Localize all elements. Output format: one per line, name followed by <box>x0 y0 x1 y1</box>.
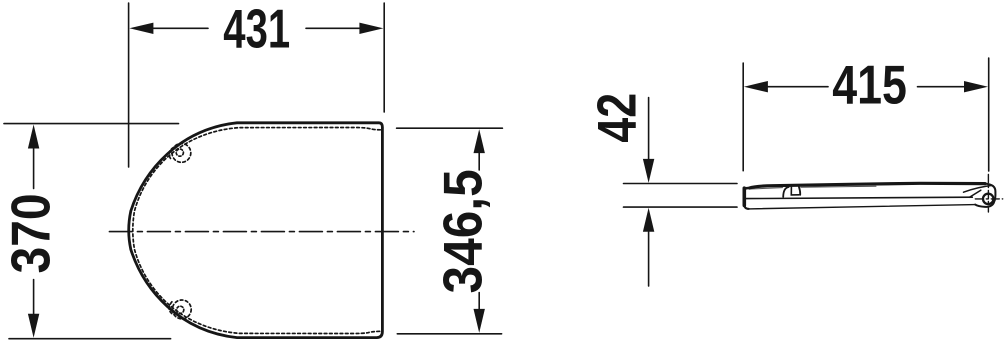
seat outline top view <box>129 123 383 338</box>
dim 370 extension line bottom <box>9 338 171 340</box>
screw hole bottom (dotted teardrop) <box>172 300 191 319</box>
dim 346,5 line bottom segment <box>478 293 480 310</box>
dim 42 arrow up <box>643 208 654 232</box>
side view left bottom corner <box>744 205 749 209</box>
dim 431 line right segment <box>306 27 361 29</box>
screw hole top (dotted teardrop) <box>172 144 191 163</box>
bumper left arc <box>783 187 788 197</box>
dim 346,5 extension line top <box>397 127 503 129</box>
dim 42 extension line bottom <box>624 206 738 208</box>
dim 346,5 line top segment <box>478 153 480 170</box>
side view right hinge end outline <box>975 184 995 207</box>
dim 370 arrow up <box>28 125 39 149</box>
dim 346,5 extension line bottom <box>397 333 501 335</box>
svg-text:415: 415 <box>832 54 907 115</box>
dim 370 line top segment <box>33 148 35 189</box>
side view mid line <box>746 197 972 198</box>
dim 42 stem top <box>648 98 650 160</box>
hinge centerline horizontal <box>975 198 1002 200</box>
dim 42 arrow down <box>643 159 654 183</box>
dim 370 extension line top <box>4 123 179 125</box>
dim 431 arrow left <box>129 23 153 34</box>
centerline top view (dash-dot) <box>109 231 414 233</box>
hinge detail line <box>970 190 981 197</box>
side view left edge <box>742 188 746 205</box>
dim 42 extension line top <box>624 183 738 185</box>
bumper right edge <box>799 187 800 195</box>
dim 431 arrow right <box>359 23 383 34</box>
dim 370 line bottom segment <box>33 280 35 315</box>
bumper divider and base <box>791 187 799 195</box>
side view left top corner <box>744 188 749 190</box>
svg-text:42: 42 <box>586 93 647 143</box>
dim 415 extension line left <box>742 63 744 171</box>
dim 415 line right segment <box>918 86 964 88</box>
dim 346,5 arrow up <box>474 129 485 153</box>
dim 370 arrow down <box>28 314 39 338</box>
hinge centerline vertical <box>987 175 989 213</box>
svg-text:370: 370 <box>0 193 61 273</box>
hinge pivot circle <box>983 194 993 204</box>
side view bottom edge <box>748 205 975 209</box>
dim 415 extension line right <box>988 58 990 171</box>
dim 415 line left segment <box>767 86 828 88</box>
dim 431 extension line left <box>128 3 130 167</box>
svg-text:431: 431 <box>223 0 290 60</box>
hinge detail curve <box>964 185 993 192</box>
dim 415 arrow left <box>744 81 768 92</box>
dim 431 extension line right <box>383 3 385 112</box>
dim 431 line left segment <box>153 27 208 29</box>
dim 415 arrow right <box>964 81 988 92</box>
side view inner top line <box>751 186 877 189</box>
svg-text:346,5: 346,5 <box>433 169 494 293</box>
side view top edge <box>750 183 985 188</box>
seat inner contour (hidden edge, dotted) <box>133 128 381 334</box>
dim 42 stem bottom <box>648 232 650 286</box>
dim 346,5 arrow down <box>474 309 485 333</box>
